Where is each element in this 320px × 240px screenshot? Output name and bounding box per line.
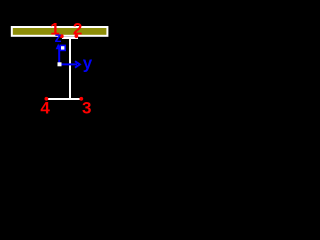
svg-text:4: 4: [40, 99, 50, 118]
svg-text:z: z: [55, 29, 62, 45]
svg-text:y: y: [83, 53, 93, 72]
svg-text:2: 2: [73, 19, 82, 38]
svg-text:3: 3: [82, 99, 91, 118]
